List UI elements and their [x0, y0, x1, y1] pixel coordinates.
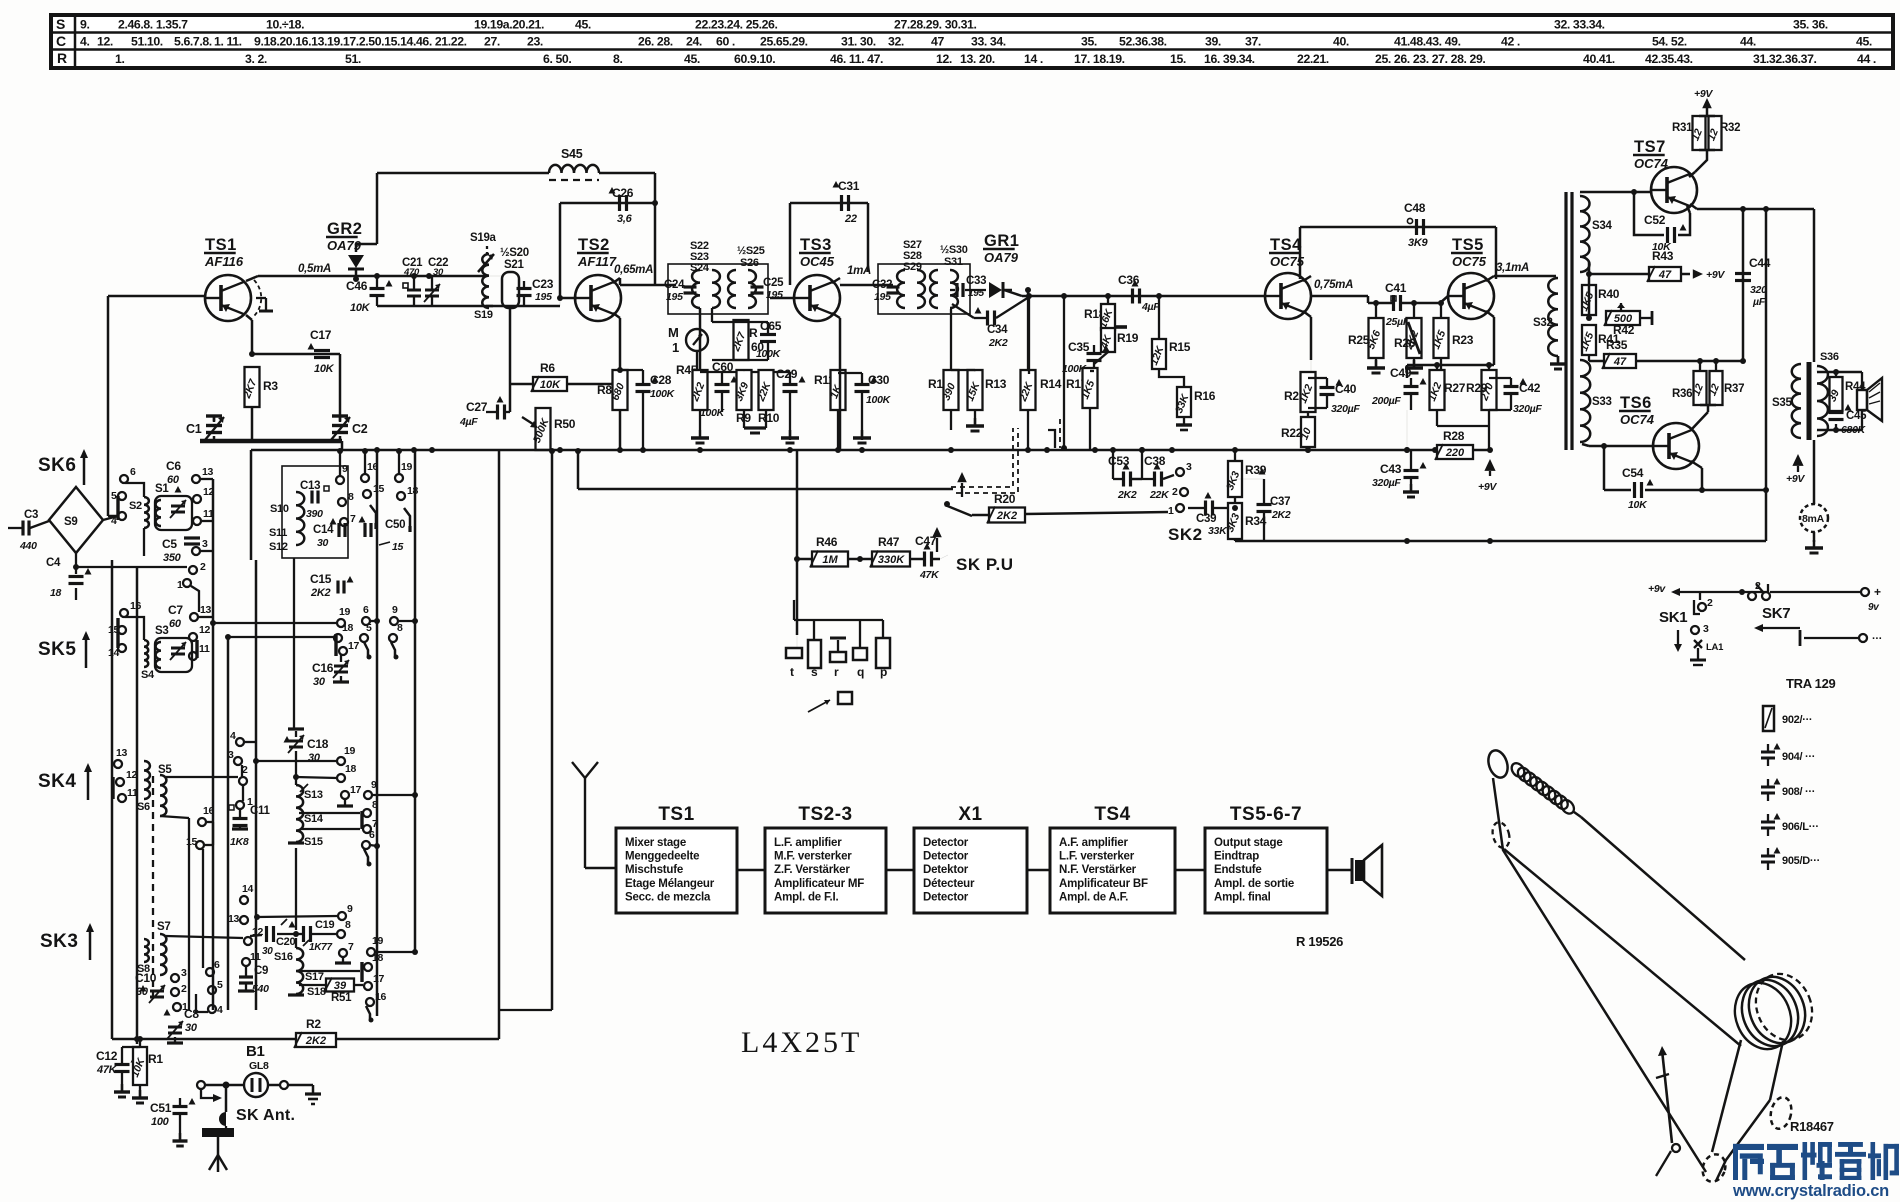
terminal 11 [193, 517, 201, 525]
resistor R12 [928, 309, 959, 430]
svg-text:Detector: Detector [923, 851, 969, 863]
svg-text:51.10.: 51.10. [131, 35, 163, 49]
meter M1 [668, 325, 708, 372]
svg-text:C1: C1 [186, 422, 202, 436]
svg-text:22.21.: 22.21. [1297, 52, 1329, 66]
wire [111, 560, 114, 1039]
wire [374, 273, 493, 306]
svg-text:R50: R50 [554, 417, 576, 431]
svg-text:16. 39.34.: 16. 39.34. [1204, 52, 1255, 66]
svg-text:30: 30 [313, 676, 326, 688]
coil S1 C6 C5 [155, 459, 200, 564]
svg-text:4: 4 [230, 730, 236, 742]
coil S36 [1817, 351, 1839, 436]
power +9V [1478, 450, 1497, 493]
svg-text:½S25: ½S25 [737, 245, 765, 257]
antenna jack [202, 1126, 234, 1137]
capacitor C9 [238, 965, 269, 995]
svg-text:30: 30 [433, 267, 444, 278]
terminal 13 [192, 475, 200, 483]
wire [242, 742, 256, 801]
wire [1742, 209, 1745, 361]
svg-text:3: 3 [1186, 461, 1192, 473]
wire [376, 173, 379, 244]
svg-text:14: 14 [108, 647, 120, 659]
terminal 6 [362, 617, 370, 625]
svg-text:C46: C46 [346, 279, 368, 293]
svg-text:R29: R29 [1466, 381, 1488, 395]
svg-text:41.48.43. 49.: 41.48.43. 49. [1394, 35, 1461, 49]
svg-text:18: 18 [342, 622, 354, 634]
capacitor C36 [1118, 273, 1160, 313]
switch SK1 [1659, 592, 1724, 665]
svg-text:SK2: SK2 [1168, 525, 1203, 544]
terminal 11 [242, 958, 250, 966]
coil S35 [1772, 364, 1801, 438]
svg-text:12: 12 [199, 624, 211, 636]
svg-text:23.: 23. [527, 35, 543, 49]
svg-text:1: 1 [1168, 505, 1174, 517]
svg-text:L4X25T: L4X25T [741, 1026, 862, 1059]
svg-text:R26: R26 [1394, 336, 1416, 350]
capacitor C46 [346, 276, 393, 314]
svg-text:+9V: +9V [1786, 473, 1805, 485]
svg-text:C27: C27 [466, 400, 488, 414]
wire [1588, 286, 1591, 315]
capacitor C51 [150, 1090, 201, 1146]
svg-text:C14: C14 [313, 524, 334, 536]
capacitor C26 [609, 186, 634, 225]
svg-text:6. 50.: 6. 50. [543, 52, 571, 66]
svg-text:5: 5 [217, 979, 223, 991]
svg-text:C10: C10 [135, 971, 157, 985]
wire [1303, 311, 1311, 373]
svg-text:TS7: TS7 [1634, 138, 1666, 156]
svg-text:0,65mA: 0,65mA [614, 264, 653, 276]
resistor R8 [597, 370, 628, 450]
terminal 2 [189, 566, 197, 574]
wire [1765, 209, 1768, 541]
svg-text:R14: R14 [1040, 377, 1062, 391]
contact 2 [1180, 488, 1188, 496]
svg-text:S19a: S19a [470, 232, 497, 244]
resistor R28 [1435, 429, 1473, 460]
terminal 9 [390, 617, 398, 625]
coil S3 C7 [155, 603, 192, 672]
terminal 12 [244, 937, 252, 945]
svg-text:S21: S21 [504, 259, 524, 271]
resistor R29 [1466, 362, 1497, 450]
svg-text:12.: 12. [97, 35, 113, 49]
wire [202, 849, 204, 968]
switch SK PU [944, 472, 972, 516]
svg-text:R3: R3 [263, 379, 278, 393]
terminal 8 [363, 809, 371, 817]
table row R [115, 52, 1876, 66]
svg-text:S6: S6 [137, 801, 150, 813]
svg-text:A.F. amplifier: A.F. amplifier [1059, 837, 1128, 849]
capacitor C27 [459, 384, 510, 428]
svg-text:100: 100 [151, 1116, 170, 1128]
capacitor C4 [46, 553, 92, 600]
wire [160, 775, 238, 1010]
svg-text:AF116: AF116 [204, 254, 244, 269]
svg-text:R19: R19 [1117, 331, 1139, 345]
svg-text:C4: C4 [46, 557, 61, 569]
capacitor C34 [952, 297, 1029, 349]
svg-text:2K2: 2K2 [305, 1035, 326, 1047]
capacitor C30 [838, 373, 892, 443]
wire [227, 637, 230, 1010]
terminal 6 [362, 841, 370, 849]
svg-text:C17: C17 [310, 328, 332, 342]
wire [1691, 461, 1702, 490]
svg-text:S34: S34 [1592, 220, 1612, 232]
svg-text:C50: C50 [385, 519, 405, 531]
wire [255, 560, 258, 1010]
svg-text:r: r [834, 665, 839, 679]
svg-text:2: 2 [1707, 597, 1713, 609]
svg-text:2K2: 2K2 [1117, 489, 1137, 501]
arrow [197, 1085, 222, 1102]
wire [932, 527, 948, 559]
svg-text:R36: R36 [1672, 388, 1692, 400]
wire [295, 848, 297, 930]
svg-text:Ampl. de A.F.: Ampl. de A.F. [1059, 891, 1128, 903]
terminal [280, 1081, 288, 1089]
svg-text:18: 18 [345, 763, 357, 775]
svg-text:TS2-3: TS2-3 [798, 804, 852, 825]
resistor R11 [814, 370, 846, 450]
capacitor C33 [950, 275, 986, 299]
svg-text:R18467: R18467 [1790, 1119, 1834, 1134]
resistor R23 [1430, 300, 1474, 373]
svg-text:R6: R6 [540, 361, 555, 375]
svg-text:905/D···: 905/D··· [1782, 855, 1820, 867]
svg-text:6: 6 [369, 829, 375, 841]
svg-text:3,6: 3,6 [617, 213, 633, 225]
potentiometer R50 [522, 408, 576, 450]
svg-text:Ampl. de F.I.: Ampl. de F.I. [774, 891, 839, 903]
svg-text:25.65.29.: 25.65.29. [760, 35, 808, 49]
terminal 17 [339, 647, 347, 655]
svg-text:470: 470 [403, 267, 420, 278]
svg-text:C15: C15 [310, 572, 332, 586]
transformer core S35-S36 [1807, 362, 1812, 440]
dial cord knot [1656, 1144, 1680, 1176]
svg-text:+9V: +9V [1706, 269, 1725, 281]
svg-text:2: 2 [1172, 486, 1178, 498]
wire [837, 372, 839, 374]
svg-text:C35: C35 [1068, 340, 1090, 354]
resistor R 60 [730, 320, 765, 360]
svg-text:R 19526: R 19526 [1296, 934, 1343, 949]
wire [1404, 410, 1437, 453]
terminal 18 [337, 774, 345, 782]
wire [246, 263, 486, 281]
svg-text:40.: 40. [1333, 35, 1349, 49]
wire [1817, 366, 1862, 434]
svg-text:R16: R16 [1194, 389, 1216, 403]
wire [575, 448, 953, 489]
svg-text:19: 19 [339, 606, 351, 618]
svg-text:52.36.38.: 52.36.38. [1119, 35, 1167, 49]
transistor TS7 [1633, 138, 1697, 213]
contact group SK4 [113, 747, 138, 802]
capacitor C19 [296, 919, 337, 953]
svg-text:26. 28.: 26. 28. [638, 35, 673, 49]
svg-text:32. 33.34.: 32. 33.34. [1554, 18, 1605, 32]
svg-text:Ampl. de sortie: Ampl. de sortie [1214, 878, 1294, 890]
svg-text:54. 52.: 54. 52. [1652, 35, 1687, 49]
block diagram antenna [572, 762, 616, 868]
svg-text:5.6.7.8.: 5.6.7.8. [174, 35, 212, 49]
svg-text:C11: C11 [250, 805, 270, 817]
label SK3 [40, 923, 94, 960]
capacitor C22 [424, 257, 448, 306]
wire [1580, 189, 1651, 196]
wire [225, 634, 334, 640]
svg-text:C41: C41 [1385, 281, 1407, 295]
svg-text:60 .: 60 . [716, 35, 735, 49]
capacitor C10 [135, 971, 165, 1003]
wire [832, 313, 840, 450]
svg-text:15: 15 [392, 541, 404, 553]
svg-text:Z.F. Verstärker: Z.F. Verstärker [774, 864, 850, 876]
svg-text:S7: S7 [157, 921, 170, 933]
svg-text:C19: C19 [315, 919, 334, 931]
dial pulley bottom [1699, 1151, 1729, 1185]
wire [1580, 262, 1589, 286]
svg-text:C37: C37 [1270, 496, 1290, 508]
svg-text:8.: 8. [613, 52, 622, 66]
svg-text:30: 30 [308, 752, 321, 764]
svg-text:15.: 15. [1170, 52, 1186, 66]
coil S16 [274, 948, 304, 995]
svg-text:SK Ant.: SK Ant. [236, 1107, 295, 1124]
dashed core [152, 776, 154, 1003]
svg-text:47: 47 [1613, 356, 1627, 368]
svg-text:S2: S2 [129, 500, 142, 512]
resistor R44 [1826, 377, 1866, 411]
block TS2-3 [765, 804, 886, 913]
resistor R6 [531, 361, 623, 392]
table frame [51, 15, 1893, 68]
svg-text:60.9.10.: 60.9.10. [734, 52, 775, 66]
svg-text:SK5: SK5 [38, 639, 76, 660]
svg-text:p: p [880, 665, 887, 679]
svg-text:47: 47 [1658, 269, 1672, 281]
svg-text:2K2: 2K2 [988, 337, 1008, 349]
svg-text:S26: S26 [740, 257, 759, 269]
switch SK7 [1739, 580, 1881, 632]
terminal 18 [364, 963, 372, 971]
svg-text:S11: S11 [269, 527, 287, 539]
wire [486, 276, 577, 306]
svg-text:33. 34.: 33. 34. [971, 35, 1006, 49]
svg-text:S: S [56, 16, 65, 32]
svg-text:S13: S13 [304, 789, 323, 801]
svg-text:X1: X1 [958, 804, 982, 825]
terminal 5 [360, 634, 368, 642]
resistor R18 [1084, 296, 1116, 330]
svg-text:10K: 10K [1628, 499, 1648, 511]
wire [372, 792, 418, 798]
svg-text:C28: C28 [650, 373, 672, 387]
svg-text:C12: C12 [96, 1049, 118, 1063]
svg-text:15: 15 [186, 836, 198, 848]
svg-text:SK1: SK1 [1659, 609, 1687, 626]
capacitor C29 [776, 367, 806, 443]
svg-text:47K: 47K [919, 569, 940, 581]
wire S17 [298, 971, 360, 983]
wire [210, 620, 337, 626]
resistor R47 [848, 535, 910, 635]
wire [770, 297, 794, 300]
terminal 15 [363, 490, 371, 498]
svg-text:220: 220 [1445, 447, 1465, 459]
transistor TS5 [1448, 236, 1494, 319]
svg-text:4.: 4. [80, 35, 89, 49]
coil S6 [137, 761, 150, 813]
capacitor C37 [1232, 447, 1291, 541]
dial pulley hidden [1490, 820, 1512, 849]
terminal 19 [367, 935, 418, 956]
svg-text:1K77: 1K77 [309, 942, 332, 953]
svg-text:60: 60 [167, 474, 180, 486]
capacitor C48 [1404, 201, 1428, 249]
terminal 1 [173, 1003, 181, 1011]
svg-text:OC74: OC74 [1620, 412, 1655, 427]
terminal 7 [335, 941, 354, 963]
terminal 2 [171, 988, 179, 996]
contact 1 [1176, 504, 1184, 512]
capacitor C32 [872, 279, 900, 303]
svg-text:TS2: TS2 [578, 236, 610, 254]
svg-text:0,5mA: 0,5mA [298, 263, 331, 275]
capacitor C38 [1132, 447, 1174, 501]
terminal 8 [338, 498, 346, 506]
diode GR1 [983, 232, 1019, 298]
svg-text:30: 30 [317, 537, 329, 549]
coil S10 S11 S12 [269, 466, 348, 558]
svg-text:1.: 1. [115, 52, 124, 66]
wire [112, 1036, 499, 1042]
svg-text:17: 17 [350, 784, 362, 796]
svg-text:R39: R39 [1245, 463, 1267, 477]
label SK4 [38, 763, 92, 800]
svg-text:9: 9 [347, 903, 353, 915]
svg-text:8: 8 [345, 919, 351, 931]
coil S2 [125, 483, 149, 556]
svg-text:3K9: 3K9 [1408, 237, 1428, 249]
battery 905 [1761, 847, 1820, 870]
svg-text:16: 16 [367, 461, 379, 473]
coil S20 S21 [486, 247, 529, 308]
svg-text:39: 39 [334, 980, 347, 992]
capacitor C45 [1829, 404, 1868, 436]
resistor R35 [1589, 338, 1746, 369]
terminal 9 [336, 476, 344, 484]
terminal 8 [337, 930, 345, 938]
svg-text:45.: 45. [575, 18, 591, 32]
wire [200, 441, 342, 450]
capacitor C13 [300, 480, 329, 520]
IF can S27-S31 [878, 239, 970, 314]
switch S19a [470, 232, 497, 272]
svg-text:R47: R47 [878, 535, 900, 549]
capacitor C28 [617, 367, 676, 450]
connector t s r q p [786, 600, 890, 679]
svg-text:15: 15 [373, 483, 385, 495]
svg-text:SK4: SK4 [38, 771, 76, 792]
svg-text:GR2: GR2 [327, 220, 362, 238]
wire [299, 813, 360, 829]
svg-text:C13: C13 [300, 480, 320, 492]
wire [337, 448, 402, 476]
svg-text:908/ ···: 908/ ··· [1782, 786, 1815, 798]
terminal 11 [189, 652, 197, 660]
svg-text:2K2: 2K2 [1271, 509, 1291, 521]
wire [1307, 371, 1309, 373]
coil S32 [1533, 276, 1566, 369]
svg-text:39.: 39. [1205, 35, 1221, 49]
coil S8 [137, 939, 150, 975]
wire [370, 618, 380, 624]
resistor R31 R32 [1672, 108, 1740, 177]
svg-text:S31: S31 [944, 256, 963, 268]
svg-text:S18: S18 [307, 986, 326, 998]
svg-text:OA79: OA79 [327, 238, 362, 253]
svg-text:Amplificateur MF: Amplificateur MF [774, 878, 864, 890]
svg-text:C6: C6 [166, 459, 181, 473]
wire [1690, 204, 1814, 212]
svg-text:R23: R23 [1452, 333, 1474, 347]
svg-text:C38: C38 [1144, 454, 1166, 468]
coil S5 [158, 764, 172, 816]
svg-text:906/L···: 906/L··· [1782, 821, 1819, 833]
wire [599, 172, 655, 175]
battery B1 [244, 1043, 269, 1097]
capacitor C18 [284, 729, 329, 777]
wire [200, 1085, 202, 1089]
svg-text:R2: R2 [306, 1017, 321, 1031]
transistor TS2 [575, 236, 621, 321]
svg-text:17. 18.19.: 17. 18.19. [1074, 52, 1125, 66]
svg-text:17: 17 [348, 640, 360, 652]
svg-text:SK7: SK7 [1762, 605, 1790, 622]
capacitor C31 [833, 179, 860, 225]
svg-text:9v: 9v [1868, 602, 1880, 613]
wire [797, 559, 860, 635]
svg-text:37.: 37. [1245, 35, 1261, 49]
svg-text:TS5-6-7: TS5-6-7 [1230, 804, 1302, 825]
svg-text:R20: R20 [994, 492, 1016, 506]
coil S45 [549, 147, 599, 180]
svg-text:8: 8 [348, 491, 354, 503]
wire [1813, 440, 1816, 504]
svg-text:TRA 129: TRA 129 [1786, 676, 1836, 691]
svg-text:C18: C18 [307, 737, 329, 751]
transistor TS4 [1265, 236, 1311, 319]
svg-text:S32: S32 [1533, 317, 1553, 329]
svg-text:3: 3 [181, 967, 187, 979]
svg-text:3: 3 [1703, 623, 1709, 635]
block X1 [914, 804, 1027, 913]
svg-text:2: 2 [181, 983, 187, 995]
switch SK Ant [219, 1107, 295, 1126]
potentiometer R42 [1589, 303, 1652, 337]
